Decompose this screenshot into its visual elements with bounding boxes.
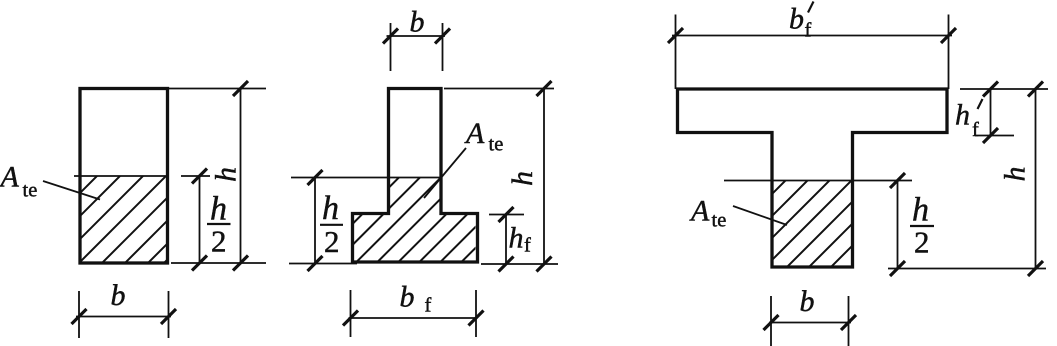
svg-text:f: f [524, 235, 531, 257]
svg-text:h: h [322, 190, 339, 227]
middle: extension lines for b_f [351, 290, 477, 337]
svg-text:b: b [400, 281, 415, 314]
left section: hatch boundary line at h/2 [74, 175, 169, 177]
left section: rectangle outline [80, 89, 168, 264]
svg-text:b: b [800, 285, 815, 318]
right: dimension line h [1028, 82, 1043, 277]
middle: dimension line b (top) [383, 29, 450, 44]
label A_te (left) [0, 161, 37, 202]
middle: bottom extension line for h/2 [289, 263, 357, 265]
middle: dimension line b_f [343, 311, 484, 326]
middle: label b_f [400, 281, 432, 317]
right: dimension line h/2 [890, 173, 905, 276]
left: dimension line h/2 [192, 169, 207, 271]
svg-text:h: h [955, 99, 970, 132]
svg-text:b: b [789, 3, 804, 36]
right: extension lines for b [771, 296, 849, 346]
label A_te (middle) [464, 117, 503, 156]
right: top extension line for h and h'_f [960, 88, 1048, 90]
svg-text:h: h [509, 222, 524, 255]
svg-text:b: b [410, 6, 425, 39]
right: bottom extension line [888, 268, 1046, 270]
right: bottom extension line for h'_f [975, 135, 1014, 137]
left: rotated label h [210, 167, 243, 182]
left: label h/2 fraction [207, 191, 231, 259]
leader line A_te (middle) [424, 148, 466, 198]
svg-text:2: 2 [324, 224, 340, 259]
middle: rotated label h [506, 171, 539, 186]
middle: label h/2 fraction [320, 190, 343, 259]
right: label b [800, 285, 815, 318]
right: dimension line b [764, 315, 857, 330]
left: dimension line b [72, 309, 177, 324]
svg-text:h: h [999, 167, 1032, 182]
right: rotated label h [999, 167, 1032, 182]
middle: dimension line h/2 [308, 170, 323, 271]
left: mid extension line for h/2 [181, 175, 210, 177]
middle: top extension line for h [444, 88, 554, 90]
right section: hatched A_te area [620, 0, 1057, 346]
right: extension lines for b'_f [676, 15, 949, 90]
middle: label b (top) [410, 6, 425, 39]
svg-text:f: f [425, 295, 432, 317]
svg-text:A: A [464, 117, 485, 150]
middle: dimension line h [537, 81, 552, 272]
svg-text:h: h [912, 192, 929, 229]
middle section: hatch boundary line at h/2 [291, 177, 441, 179]
leader line A_te (right) [733, 206, 787, 225]
right: dimension line h'_f [983, 82, 998, 144]
right: label h/2 fraction [910, 192, 934, 260]
left section: hatched A_te area [0, 0, 427, 346]
right section: T outline [678, 89, 948, 267]
left: dimension line h [233, 81, 248, 271]
svg-text:f: f [805, 20, 812, 42]
svg-text:b: b [111, 279, 126, 312]
middle: label h_f [509, 222, 532, 257]
svg-text:2: 2 [211, 224, 227, 259]
svg-text:te: te [23, 180, 38, 202]
middle: bottom extension line [481, 263, 558, 265]
svg-text:te: te [712, 210, 727, 232]
middle: top extension line for h_f [489, 214, 524, 216]
middle: dimension line h_f [499, 207, 514, 272]
middle section: inverted-T outline [353, 89, 478, 263]
svg-text:A: A [0, 161, 20, 194]
right: label b'_f [789, 2, 814, 42]
svg-text:h: h [210, 167, 243, 182]
right: label h'_f [955, 99, 983, 142]
svg-text:te: te [489, 134, 504, 156]
svg-text:2: 2 [914, 225, 930, 260]
left: bottom extension line [171, 262, 266, 264]
middle: extension lines for top b [391, 23, 443, 71]
middle section: hatched A_te area [230, 0, 723, 346]
svg-text:h: h [506, 171, 539, 186]
right section: hatch boundary line at h/2 [724, 180, 912, 182]
left: label b [111, 279, 126, 312]
svg-text:A: A [689, 195, 710, 228]
svg-text:f: f [972, 119, 979, 141]
svg-text:h: h [210, 191, 227, 228]
right: dimension line b'_f [668, 28, 956, 43]
left: extension lines for b [79, 291, 169, 338]
left: top extension line for h [169, 88, 266, 90]
label A_te (right) [689, 195, 726, 232]
leader line A_te (left) [43, 181, 100, 200]
